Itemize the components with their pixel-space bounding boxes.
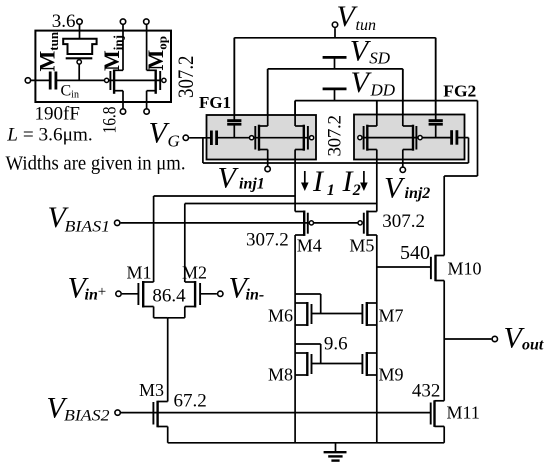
svg-text:in-: in-: [246, 287, 265, 304]
label VG: [149, 117, 180, 151]
svg-text:L = 3.6μm.: L = 3.6μm.: [6, 125, 92, 146]
transistor Mop of FG1 (mirrored): [295, 101, 314, 212]
svg-text:Mtun: Mtun: [35, 31, 62, 71]
transistor M3 (tail): [153, 401, 167, 443]
label Mop (rotated): [143, 36, 170, 71]
svg-text:in: in: [85, 287, 98, 304]
Mop drain terminal (inset top): [144, 19, 149, 24]
Minj source terminal (inset bottom): [120, 109, 125, 114]
label FG1: [199, 93, 231, 112]
transistor Mop of FG2: [358, 101, 377, 212]
wire Vin- to M2 gate: [200, 293, 217, 295]
wire VDD routing to M10 drain: [444, 101, 477, 256]
wire M1 drain to node I1: [154, 196, 296, 282]
transistor M2 (input pair, mirrored): [168, 281, 200, 318]
value label 307.2 (left of M4): [246, 230, 289, 251]
label Vinj1: [218, 162, 265, 195]
label M2: [182, 263, 207, 283]
svg-text:FG1: FG1: [199, 93, 231, 112]
wire M10 gate: [377, 266, 431, 268]
svg-text:M1: M1: [127, 263, 152, 283]
svg-text:432: 432: [412, 380, 441, 401]
svg-text:out: out: [522, 336, 544, 353]
wire M2 drain to node I2: [185, 204, 377, 283]
node Vinj2 terminal: [400, 167, 405, 172]
svg-text:BIAS1: BIAS1: [65, 219, 111, 236]
label M1: [127, 263, 152, 283]
wire Vout tap: [444, 338, 491, 340]
wire left rail (M4 to ground): [294, 235, 296, 443]
supply bar VDD: [323, 89, 347, 101]
svg-text:V: V: [384, 171, 406, 204]
node VG terminal: [183, 135, 188, 140]
floating-gate wire FG1: [217, 137, 308, 139]
transistor M6 (mirror): [295, 302, 311, 326]
svg-text:540: 540: [400, 242, 430, 264]
svg-text:M11: M11: [447, 403, 480, 423]
transistor Minj of FG1: [250, 69, 268, 166]
node VBIAS1 terminal: [115, 220, 120, 225]
label VBIAS1: [48, 201, 111, 236]
wire M6 gate to M7 gate: [312, 313, 363, 315]
transistor M9: [362, 352, 376, 376]
label I1: [312, 165, 335, 199]
floating-gate wire FG2: [364, 137, 452, 139]
svg-text:1: 1: [327, 182, 335, 199]
wire M6 diode connection: [295, 294, 321, 314]
svg-text:190fF: 190fF: [35, 104, 80, 125]
FG1 block box: [207, 115, 317, 160]
label M9: [379, 365, 404, 385]
svg-text:67.2: 67.2: [174, 391, 207, 412]
wire VG input: [189, 137, 211, 139]
node Vin- terminal: [218, 291, 223, 296]
Minj drain terminal (inset top): [120, 19, 125, 24]
transistor M4 (mirrored PMOS cascode): [295, 211, 313, 236]
label Vinj2: [384, 171, 430, 204]
wire ground rail: [168, 442, 445, 444]
value label 3.6: [52, 11, 76, 32]
label VDD: [351, 66, 396, 100]
svg-text:307.2: 307.2: [382, 211, 425, 232]
svg-text:M2: M2: [182, 263, 207, 283]
svg-text:Cin: Cin: [61, 82, 79, 100]
svg-text:inj1: inj1: [239, 176, 265, 193]
wire output rail M10 to M11: [443, 281, 445, 401]
label Vout: [504, 321, 544, 354]
transistor M10 (output): [431, 255, 444, 281]
value label 190fF: [35, 104, 80, 125]
wire Vin+ to M1 gate: [122, 293, 138, 295]
capacitor Cin of FG2: [452, 130, 457, 145]
wire VSD rail: [268, 69, 403, 126]
svg-text:86.4: 86.4: [152, 286, 186, 307]
svg-text:tun: tun: [356, 17, 376, 34]
svg-text:Minj: Minj: [99, 35, 126, 71]
node Vinj1 terminal: [265, 166, 270, 171]
node Vin+ terminal: [116, 291, 121, 296]
label VBIAS2: [46, 391, 109, 424]
input terminal (inset left): [25, 78, 30, 83]
label Vin-: [229, 272, 265, 305]
current arrow I1: [301, 171, 309, 191]
svg-text:3.6: 3.6: [52, 11, 76, 32]
transistor M1 (input pair): [138, 281, 167, 318]
transistor Mtun (tunneling MOS cap): [63, 39, 96, 81]
FG2 block box: [354, 115, 465, 160]
note widths: [6, 154, 186, 175]
label Vin+: [68, 272, 107, 305]
label Cin: [61, 82, 79, 100]
wire VBIAS2 to M3 and M11 gates: [121, 412, 431, 414]
transistor M11 (output): [431, 400, 445, 443]
transistor Minj of FG2 (mirrored): [403, 69, 422, 167]
svg-text:SD: SD: [369, 48, 391, 67]
wire right rail (M5 to ground): [376, 235, 378, 443]
svg-text:M5: M5: [349, 236, 374, 256]
svg-text:M3: M3: [139, 380, 164, 400]
svg-text:+: +: [98, 284, 106, 300]
supply bar VSD: [323, 57, 347, 69]
label M8: [268, 365, 293, 385]
label M4: [297, 236, 322, 256]
svg-text:M10: M10: [448, 259, 482, 279]
tunneling capacitor of FG2: [429, 38, 443, 138]
value label 9.6: [324, 334, 348, 355]
svg-text:M4: M4: [297, 236, 322, 256]
label Mtun (rotated): [35, 31, 62, 71]
capacitor Cin: [50, 72, 56, 90]
current arrow I2: [360, 171, 368, 191]
label M5: [349, 236, 374, 256]
label M7: [379, 306, 404, 326]
label M10: [448, 259, 482, 279]
svg-text:M6: M6: [268, 306, 293, 326]
svg-text:BIAS2: BIAS2: [64, 407, 110, 424]
transistor M8 (mirror): [295, 352, 311, 376]
svg-text:M7: M7: [379, 306, 404, 326]
wire: [31, 79, 49, 81]
node Vout terminal: [492, 336, 497, 341]
svg-text:I: I: [312, 165, 325, 198]
svg-text:G: G: [168, 132, 180, 151]
Mop source terminal (inset bottom): [144, 109, 149, 114]
value label 86.4: [152, 286, 186, 307]
node Vtun terminal (inset top): [77, 19, 82, 24]
ground: [324, 443, 347, 461]
value label 16.8 (rotated): [99, 107, 120, 134]
transistor M5 (PMOS cascode): [358, 211, 377, 236]
value label 540: [400, 242, 430, 264]
wire M8 gate to M9 gate: [312, 363, 363, 365]
svg-text:9.6: 9.6: [324, 334, 348, 355]
svg-text:DD: DD: [370, 81, 396, 100]
label M6: [268, 306, 293, 326]
svg-text:M8: M8: [268, 365, 293, 385]
svg-text:16.8: 16.8: [99, 107, 120, 134]
transistor Mop (inset, mirrored): [147, 25, 166, 109]
value label 307.2 (right of M5): [382, 211, 425, 232]
wire Vtun rail: [234, 28, 435, 121]
transistor Minj (inset): [105, 25, 124, 109]
svg-text:Widths are given in μm.: Widths are given in μm.: [6, 154, 186, 175]
label I2: [342, 165, 361, 199]
wire tail (M1/M2 common source to M3): [167, 318, 169, 402]
svg-text:2: 2: [352, 182, 361, 199]
inset box (floating-gate cell detail): [35, 31, 171, 102]
label VSD: [350, 35, 391, 68]
label M11: [447, 403, 480, 423]
node Vtun terminal: [332, 22, 337, 27]
floating-gate wire (inset): [56, 79, 160, 81]
wire VBIAS1 to M4/M5 gates: [121, 222, 358, 224]
svg-text:V: V: [218, 162, 240, 195]
wire M8 diode connection: [295, 344, 321, 364]
value label 67.2: [174, 391, 207, 412]
svg-text:M9: M9: [379, 365, 404, 385]
tunneling capacitor of FG1: [227, 38, 241, 138]
svg-text:307.2: 307.2: [325, 115, 346, 157]
label FG2: [443, 82, 476, 101]
label Vtun: [337, 0, 376, 34]
svg-text:307.2: 307.2: [173, 56, 198, 99]
label Minj (rotated): [99, 35, 126, 71]
capacitor Cin of FG1: [211, 131, 216, 146]
wire: [79, 25, 81, 39]
svg-text:inj2: inj2: [405, 185, 431, 202]
value label 432: [412, 380, 441, 401]
value label 307.2 (between FG blocks, rotated): [325, 115, 346, 157]
note L = 3.6um: [6, 125, 92, 146]
wire VDD rail: [295, 101, 477, 126]
wire VG routing under FG blocks: [203, 138, 469, 163]
svg-text:V: V: [351, 66, 373, 99]
svg-text:FG2: FG2: [443, 82, 476, 101]
node VBIAS2 terminal: [115, 410, 120, 415]
label M3: [139, 380, 164, 400]
value label 307.2 (inset, rotated): [173, 56, 198, 99]
transistor M7: [362, 302, 376, 326]
svg-text:307.2: 307.2: [246, 230, 289, 251]
